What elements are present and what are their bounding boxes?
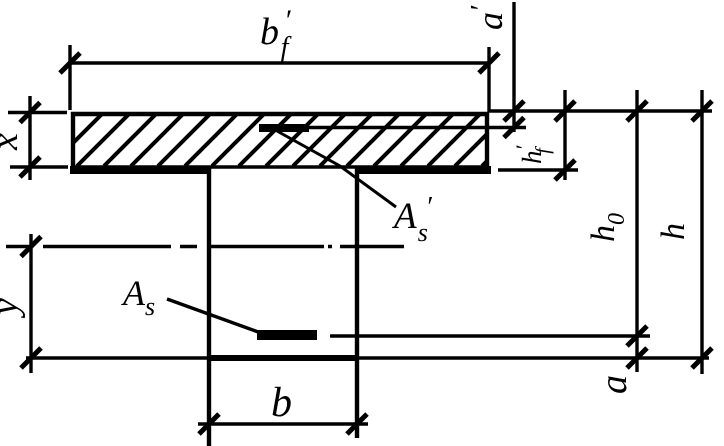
- centroid axis dash-dot: [6, 245, 404, 248]
- svg-text:a: a: [593, 375, 635, 394]
- svg-text:x: x: [0, 133, 26, 151]
- tick a' top: [504, 101, 524, 121]
- svg-text:b: b: [271, 380, 292, 426]
- b'f right extension: [487, 47, 490, 112]
- tick h top: [692, 101, 712, 121]
- bottom extension line: [26, 356, 709, 359]
- A's rebar leader thin line: [309, 126, 526, 129]
- As rebar bar: [257, 330, 317, 340]
- top extension line to h0 and h: [489, 109, 712, 112]
- flange bottom thick left segment: [70, 166, 210, 174]
- tick y top: [21, 237, 41, 257]
- x dimension line: [28, 96, 31, 180]
- beam bottom thick: [209, 355, 358, 361]
- tick a bottom: [627, 348, 647, 368]
- y dimension line: [29, 234, 32, 373]
- tick b left: [199, 414, 219, 434]
- a' dimension line: [512, 2, 515, 132]
- tick b'f left: [60, 53, 80, 73]
- x bottom extension: [10, 165, 68, 168]
- flange bottom thick right segment: [355, 166, 491, 174]
- svg-text:y: y: [0, 298, 26, 319]
- hatching of flange: [50, 112, 536, 166]
- web left edge: [207, 168, 211, 446]
- tick b'f right: [479, 53, 499, 73]
- As level extension line: [330, 334, 650, 337]
- h0 dimension line: [635, 90, 638, 372]
- x top extension: [8, 111, 67, 114]
- A's leader: [277, 131, 396, 207]
- tick h'f bottom: [555, 160, 575, 180]
- h dimension line: [700, 90, 703, 374]
- h'f dimension line: [563, 90, 566, 180]
- A's rebar bar: [259, 124, 309, 132]
- flange bottom thin line across web: [73, 165, 487, 169]
- b'f dimension line: [68, 61, 490, 64]
- tick h0 top: [627, 101, 647, 121]
- tick h'f top: [555, 101, 575, 121]
- h'f bottom extension: [498, 168, 578, 171]
- flange outline: [71, 112, 489, 170]
- As leader: [167, 299, 261, 333]
- b dimension line: [198, 422, 368, 425]
- tick h bottom: [692, 348, 712, 368]
- tick x bottom: [20, 157, 40, 177]
- tick x top: [20, 103, 40, 123]
- b'f left extension: [68, 45, 71, 110]
- svg-text:h: h: [655, 223, 692, 240]
- web right edge: [355, 168, 359, 438]
- tick h0 bottom / a top: [627, 326, 647, 346]
- tick a' bottom: [504, 118, 524, 138]
- tick b right: [347, 414, 367, 434]
- tick y bottom: [21, 348, 41, 368]
